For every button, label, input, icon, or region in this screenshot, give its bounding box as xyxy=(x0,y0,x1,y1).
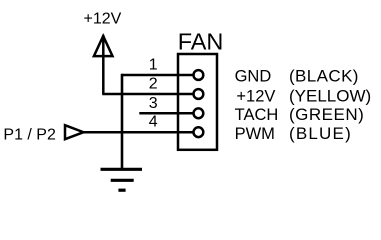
svg-text:PWM: PWM xyxy=(235,125,275,143)
wire pin1 to ground vertical xyxy=(122,74,193,77)
wire TACH stub to pin3 xyxy=(139,112,193,115)
svg-text:(BLUE): (BLUE) xyxy=(289,124,352,143)
svg-text:3: 3 xyxy=(149,95,158,112)
svg-text:+12V: +12V xyxy=(84,11,122,28)
pin 4 circle xyxy=(194,127,204,137)
wire +12V to pin2 xyxy=(102,93,193,96)
svg-text:1: 1 xyxy=(149,57,158,74)
wire PWM P1/P2 to pin4 xyxy=(84,131,194,134)
power symbol +12V arrow xyxy=(94,35,113,94)
svg-text:2: 2 xyxy=(149,76,158,93)
ground xyxy=(101,169,143,190)
pin 2 circle xyxy=(194,89,204,99)
svg-text:4: 4 xyxy=(149,114,158,131)
pin 1 circle xyxy=(194,70,204,80)
connector J1 body xyxy=(178,54,217,150)
svg-text:TACH: TACH xyxy=(235,106,279,124)
svg-text:GND: GND xyxy=(235,67,272,85)
svg-text:+12V: +12V xyxy=(236,87,275,105)
input port triangle P1/P2 xyxy=(65,125,84,139)
wire ground vertical xyxy=(121,74,124,170)
svg-text:(BLACK): (BLACK) xyxy=(289,66,359,85)
svg-text:(GREEN): (GREEN) xyxy=(289,105,364,124)
svg-text:(YELLOW): (YELLOW) xyxy=(289,87,371,106)
pin 3 circle xyxy=(194,108,204,118)
svg-text:FAN: FAN xyxy=(178,29,224,55)
svg-text:P1 / P2: P1 / P2 xyxy=(3,126,56,143)
